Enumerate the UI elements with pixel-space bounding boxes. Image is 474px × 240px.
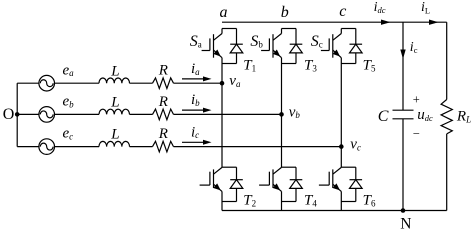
transistor T5 (IGBT) (321, 29, 341, 64)
node label b (281, 4, 289, 21)
current arrow i_a (182, 76, 212, 81)
wire - leg b upper cell to node v_b (281, 64, 283, 115)
load resistor R_L (441, 100, 452, 134)
svg-text:ic: ic (410, 40, 418, 55)
wire - node v_a to lower cell (221, 83, 223, 167)
inductor L (phase a) (99, 78, 130, 83)
wire - inductor to resistor (phase a) (130, 82, 153, 84)
svg-text:idc: idc (374, 0, 386, 15)
svg-text:+: + (413, 93, 420, 107)
wire - capacitor to bottom rail (402, 119, 404, 211)
svg-text:a: a (220, 4, 228, 21)
wire - neutral bus vertical (16, 83, 18, 146)
node v_c (339, 137, 361, 153)
svg-text:c: c (339, 3, 346, 20)
wire - DC positive rail (top) (222, 21, 447, 23)
svg-text:T3: T3 (304, 57, 317, 73)
label L (phase c) (110, 127, 119, 143)
wire - source to inductor (phase c) (55, 146, 100, 148)
switch label S_b (250, 33, 263, 50)
wire - node v_b to lower cell (281, 114, 283, 167)
label T3 (304, 57, 317, 73)
label i_b (191, 92, 200, 108)
transistor T2 (IGBT) (200, 167, 222, 201)
svg-text:vc: vc (350, 137, 361, 153)
svg-text:T5: T5 (363, 57, 376, 73)
inductor L (phase b) (99, 109, 130, 114)
switch label S_c (311, 33, 323, 50)
svg-text:R: R (158, 94, 168, 110)
AC source e_a (39, 75, 55, 91)
wire - load resistor to bottom rail (446, 134, 448, 211)
node N (DC negative midpoint) (400, 208, 411, 232)
label i_dc (374, 0, 386, 15)
transistor T6 (IGBT) (319, 167, 341, 201)
current arrow i_c (182, 140, 212, 145)
svg-text:Sc: Sc (311, 33, 323, 50)
wire - inductor to resistor (phase c) (130, 146, 153, 148)
svg-text:Sa: Sa (190, 33, 202, 50)
svg-text:udc: udc (417, 107, 433, 123)
svg-text:T2: T2 (243, 193, 256, 209)
label i_c (191, 124, 199, 140)
diode of T5 (antiparallel) (341, 29, 362, 64)
svg-text:RL: RL (456, 108, 471, 124)
label i_c (410, 40, 418, 55)
svg-text:eb: eb (63, 94, 75, 110)
svg-text:ib: ib (191, 92, 200, 108)
wire - node v_c to lower cell (340, 147, 342, 168)
label T1 (243, 57, 256, 73)
svg-text:Sb: Sb (250, 33, 263, 50)
polarity + of u_dc (413, 93, 420, 107)
current arrow i_b (182, 108, 212, 113)
svg-text:ec: ec (63, 126, 74, 142)
label e_b (63, 94, 75, 110)
svg-text:T6: T6 (363, 193, 376, 209)
label e_c (63, 126, 74, 142)
wire - O bus to source e_a (17, 82, 39, 84)
label R (phase b) (158, 94, 168, 110)
svg-text:ea: ea (63, 62, 75, 78)
switch label S_a (190, 33, 202, 50)
transistor T3 (IGBT) (261, 29, 281, 64)
diode of T4 (antiparallel) (282, 167, 303, 201)
polarity - of u_dc (413, 126, 420, 140)
AC source e_c (39, 139, 55, 155)
svg-text:R: R (158, 63, 168, 79)
resistor R (phase a) (153, 78, 174, 89)
label u_dc (417, 107, 433, 123)
wire - source to inductor (phase b) (55, 113, 100, 115)
node label c (339, 3, 346, 20)
resistor R (phase b) (153, 109, 174, 120)
current arrow i_L on top rail (429, 20, 439, 25)
svg-text:iL: iL (421, 0, 430, 15)
wire - inductor to resistor (phase b) (130, 113, 153, 115)
label R_L (456, 108, 471, 124)
svg-text:C: C (378, 108, 389, 125)
label R (phase a) (158, 63, 168, 79)
label T6 (363, 193, 376, 209)
wire - resistor to bridge (phase c) (174, 146, 342, 148)
diode of T6 (antiparallel) (341, 167, 362, 201)
label C (378, 108, 389, 125)
wire - source to inductor (phase a) (55, 82, 100, 84)
wire - top rail to capacitor (402, 22, 404, 110)
node v_b (279, 104, 300, 120)
node label a (220, 4, 228, 21)
transistor T4 (IGBT) (259, 167, 281, 201)
inductor L (phase c) (99, 141, 130, 146)
node v_a (220, 73, 241, 89)
svg-text:va: va (229, 73, 241, 89)
svg-text:N: N (400, 215, 411, 232)
wire - O bus to source e_c (17, 146, 39, 148)
diode of T3 (antiparallel) (282, 29, 303, 64)
svg-text:L: L (110, 95, 119, 111)
svg-text:T4: T4 (304, 193, 317, 209)
diode of T1 (antiparallel) (222, 29, 243, 64)
label T4 (304, 193, 317, 209)
wire - resistor to bridge (phase a) (174, 82, 223, 84)
svg-text:b: b (281, 4, 289, 21)
svg-text:−: − (413, 126, 420, 140)
wire - resistor to bridge (phase b) (174, 113, 282, 115)
label i_a (191, 61, 200, 77)
svg-text:R: R (158, 126, 168, 142)
resistor R (phase c) (153, 141, 174, 152)
svg-text:ia: ia (191, 61, 200, 77)
svg-text:L: L (110, 127, 119, 143)
wire - leg a upper cell to node v_a (221, 64, 223, 84)
node O (neutral) with junction dot (3, 106, 20, 123)
wire - leg c lower cell to bottom rail (340, 202, 342, 211)
wire - top rail corner to load resistor (446, 22, 448, 99)
svg-text:vb: vb (289, 104, 301, 120)
svg-text:ic: ic (191, 124, 199, 140)
svg-text:O: O (3, 106, 15, 123)
label i_L (421, 0, 430, 15)
current arrow i_dc on top rail (381, 20, 391, 25)
wire - leg b lower cell to bottom rail (281, 202, 283, 211)
wire - O bus to source e_b (17, 113, 39, 115)
svg-text:T1: T1 (243, 57, 256, 73)
label T2 (243, 193, 256, 209)
wire - leg a lower cell to bottom rail (221, 202, 223, 211)
label R (phase c) (158, 126, 168, 142)
svg-text:L: L (110, 63, 119, 79)
wire - DC negative rail (bottom) (222, 210, 447, 212)
transistor T1 (IGBT) (202, 29, 222, 64)
diode of T2 (antiparallel) (222, 167, 243, 201)
label T5 (363, 57, 376, 73)
capacitor C plates (393, 110, 414, 119)
wire - leg c upper cell to node v_c (340, 64, 342, 147)
label L (phase b) (110, 95, 119, 111)
label L (phase a) (110, 63, 119, 79)
AC source e_b (39, 107, 55, 123)
current arrow i_c on capacitor branch (400, 50, 405, 60)
label e_a (63, 62, 75, 78)
